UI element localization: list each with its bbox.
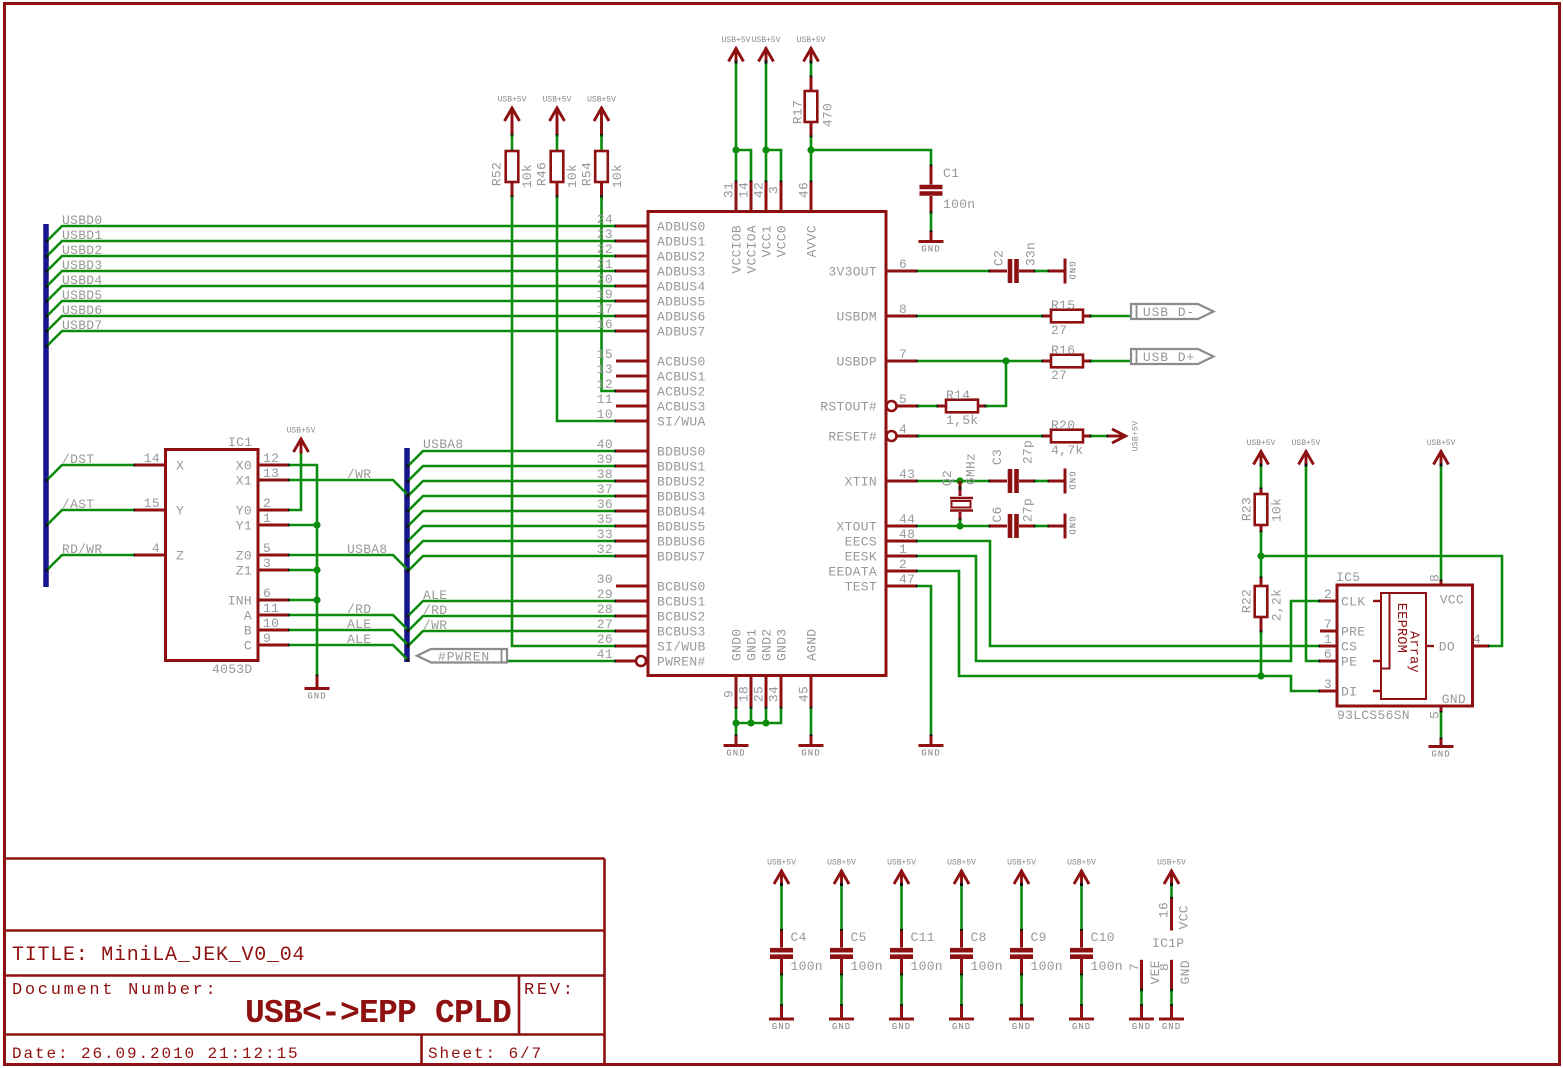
svg-text:VCC: VCC — [1440, 593, 1464, 608]
svg-text:4,7k: 4,7k — [1051, 443, 1083, 458]
svg-text:39: 39 — [597, 452, 613, 467]
svg-text:ACBUS1: ACBUS1 — [657, 370, 706, 385]
svg-text:USBA8: USBA8 — [423, 437, 464, 452]
svg-text:/DST: /DST — [62, 452, 94, 467]
svg-text:USB<->EPP CPLD: USB<->EPP CPLD — [245, 995, 511, 1032]
svg-text:4053D: 4053D — [212, 662, 253, 677]
svg-text:XTOUT: XTOUT — [836, 520, 877, 535]
svg-text:16: 16 — [1157, 902, 1172, 918]
svg-text:USB+5V: USB+5V — [887, 859, 916, 868]
svg-text:#PWREN: #PWREN — [438, 650, 490, 665]
svg-text:/AST: /AST — [62, 497, 94, 512]
svg-text:26: 26 — [597, 632, 613, 647]
svg-text:ALE: ALE — [347, 632, 371, 647]
svg-text:ADBUS1: ADBUS1 — [657, 235, 706, 250]
svg-text:USBD6: USBD6 — [62, 303, 103, 318]
svg-text:48: 48 — [899, 527, 915, 542]
svg-text:3V3OUT: 3V3OUT — [828, 265, 877, 280]
svg-text:27: 27 — [597, 617, 613, 632]
svg-text:USBD0: USBD0 — [62, 213, 103, 228]
svg-text:1: 1 — [899, 542, 907, 557]
svg-text:USB+5V: USB+5V — [1067, 859, 1096, 868]
svg-text:6: 6 — [263, 586, 271, 601]
svg-text:RSTOUT#: RSTOUT# — [820, 400, 877, 415]
svg-text:2: 2 — [899, 557, 907, 572]
svg-text:USB+5V: USB+5V — [947, 859, 976, 868]
svg-text:ACBUS3: ACBUS3 — [657, 400, 706, 415]
svg-text:4: 4 — [899, 422, 907, 437]
svg-text:5: 5 — [899, 392, 907, 407]
svg-text:GND: GND — [1067, 471, 1077, 490]
svg-text:14: 14 — [144, 451, 160, 466]
svg-text:33: 33 — [597, 527, 613, 542]
svg-text:RESET#: RESET# — [828, 430, 877, 445]
svg-text:10k: 10k — [565, 164, 580, 188]
svg-text:45: 45 — [797, 686, 812, 702]
svg-text:C10: C10 — [1091, 930, 1115, 945]
svg-text:/RD: /RD — [347, 602, 371, 617]
svg-text:TEST: TEST — [845, 580, 877, 595]
svg-text:100n: 100n — [971, 959, 1003, 974]
svg-text:REV:: REV: — [524, 981, 576, 1000]
svg-text:35: 35 — [597, 512, 613, 527]
svg-text:31: 31 — [722, 182, 737, 198]
svg-text:USB+5V: USB+5V — [1247, 439, 1276, 448]
svg-text:36: 36 — [597, 497, 613, 512]
svg-text:32: 32 — [597, 542, 613, 557]
svg-text:ADBUS5: ADBUS5 — [657, 295, 706, 310]
svg-text:100n: 100n — [1091, 959, 1123, 974]
svg-text:USB D+: USB D+ — [1143, 350, 1195, 365]
svg-text:6MHz: 6MHz — [964, 453, 979, 485]
svg-text:GND: GND — [921, 245, 940, 255]
svg-text:USBD4: USBD4 — [62, 273, 103, 288]
svg-text:USB+5V: USB+5V — [797, 36, 826, 45]
svg-text:R20: R20 — [1051, 418, 1075, 433]
svg-text:C1: C1 — [943, 166, 959, 181]
svg-text:GND: GND — [307, 692, 326, 702]
svg-text:VCCIOB: VCCIOB — [730, 225, 745, 274]
svg-text:19: 19 — [597, 287, 613, 302]
svg-text:CLK: CLK — [1341, 595, 1365, 610]
svg-text:8: 8 — [1428, 574, 1443, 582]
svg-text:/WR: /WR — [423, 618, 447, 633]
svg-text:100n: 100n — [851, 959, 883, 974]
svg-text:INH: INH — [228, 594, 252, 609]
svg-text:DO: DO — [1439, 640, 1455, 655]
svg-text:GND: GND — [1178, 960, 1193, 984]
svg-text:BCBUS2: BCBUS2 — [657, 610, 706, 625]
svg-text:37: 37 — [597, 482, 613, 497]
svg-text:2: 2 — [263, 496, 271, 511]
svg-text:C6: C6 — [990, 506, 1005, 522]
svg-text:ADBUS7: ADBUS7 — [657, 325, 706, 340]
svg-text:GND: GND — [1012, 1022, 1031, 1032]
svg-text:12: 12 — [597, 377, 613, 392]
svg-text:2: 2 — [1324, 587, 1332, 602]
svg-text:7: 7 — [1324, 617, 1332, 632]
svg-text:29: 29 — [597, 587, 613, 602]
svg-text:R16: R16 — [1051, 343, 1075, 358]
svg-text:BDBUS0: BDBUS0 — [657, 445, 706, 460]
svg-text:24: 24 — [597, 212, 613, 227]
svg-text:ADBUS2: ADBUS2 — [657, 250, 706, 265]
svg-text:DI: DI — [1341, 685, 1357, 700]
svg-text:GND: GND — [726, 749, 745, 759]
svg-text:17: 17 — [597, 302, 613, 317]
svg-text:10: 10 — [597, 407, 613, 422]
svg-text:20: 20 — [597, 272, 613, 287]
svg-text:Z1: Z1 — [236, 564, 252, 579]
svg-text:Y0: Y0 — [236, 504, 252, 519]
svg-text:4: 4 — [152, 541, 160, 556]
svg-text:21: 21 — [597, 257, 613, 272]
svg-text:8: 8 — [1157, 963, 1172, 971]
svg-text:8: 8 — [899, 302, 907, 317]
svg-text:USB+5V: USB+5V — [752, 36, 781, 45]
svg-text:BDBUS5: BDBUS5 — [657, 520, 706, 535]
svg-text:EESK: EESK — [845, 550, 877, 565]
svg-text:7: 7 — [899, 347, 907, 362]
svg-text:15: 15 — [597, 347, 613, 362]
svg-text:9: 9 — [722, 690, 737, 698]
svg-text:USB+5V: USB+5V — [722, 36, 751, 45]
svg-text:27: 27 — [1051, 323, 1067, 338]
svg-text:ADBUS3: ADBUS3 — [657, 265, 706, 280]
svg-text:GND: GND — [952, 1022, 971, 1032]
svg-text:USB+5V: USB+5V — [827, 859, 856, 868]
svg-text:100n: 100n — [911, 959, 943, 974]
svg-text:100n: 100n — [943, 197, 975, 212]
svg-text:USBD1: USBD1 — [62, 228, 103, 243]
svg-text:25: 25 — [752, 686, 767, 702]
svg-text:USBDP: USBDP — [836, 355, 877, 370]
svg-text:3: 3 — [767, 186, 782, 194]
svg-text:C5: C5 — [851, 930, 867, 945]
svg-text:33n: 33n — [1024, 242, 1039, 266]
svg-text:10k: 10k — [1270, 498, 1285, 522]
svg-text:USB+5V: USB+5V — [498, 96, 527, 105]
svg-text:USBD5: USBD5 — [62, 288, 103, 303]
svg-text:23: 23 — [597, 227, 613, 242]
svg-text:VCC1: VCC1 — [760, 225, 775, 257]
svg-text:7: 7 — [1127, 963, 1142, 971]
svg-text:R22: R22 — [1240, 589, 1255, 613]
svg-text:12: 12 — [263, 451, 279, 466]
svg-text:IC5: IC5 — [1336, 570, 1360, 585]
svg-text:11: 11 — [597, 392, 613, 407]
svg-text:EECS: EECS — [845, 535, 877, 550]
svg-text:GND: GND — [1162, 1022, 1181, 1032]
svg-text:USB+5V: USB+5V — [587, 96, 616, 105]
svg-text:AVVC: AVVC — [805, 225, 820, 257]
svg-text:2,2k: 2,2k — [1270, 589, 1285, 621]
svg-text:B: B — [244, 624, 252, 639]
svg-text:C11: C11 — [911, 930, 935, 945]
svg-text:GND: GND — [892, 1022, 911, 1032]
svg-text:ALE: ALE — [347, 617, 371, 632]
svg-text:ADBUS4: ADBUS4 — [657, 280, 706, 295]
svg-text:27p: 27p — [1021, 498, 1036, 522]
svg-text:3: 3 — [263, 556, 271, 571]
svg-text:USB+5V: USB+5V — [767, 859, 796, 868]
svg-text:Document Number:: Document Number: — [12, 981, 218, 1000]
svg-text:PWREN#: PWREN# — [657, 655, 706, 670]
svg-text:C3: C3 — [990, 449, 1005, 465]
svg-text:GND: GND — [832, 1022, 851, 1032]
svg-text:AGND: AGND — [805, 629, 820, 661]
svg-text:6: 6 — [1324, 647, 1332, 662]
svg-text:3: 3 — [1324, 677, 1332, 692]
svg-text:PRE: PRE — [1341, 625, 1365, 640]
svg-text:USB+5V: USB+5V — [1132, 421, 1141, 452]
svg-text:X0: X0 — [236, 459, 252, 474]
svg-text:GND: GND — [1431, 750, 1450, 760]
svg-text:SI/WUB: SI/WUB — [657, 640, 706, 655]
svg-text:RD/WR: RD/WR — [62, 542, 103, 557]
svg-text:/RD: /RD — [423, 603, 447, 618]
svg-text:R14: R14 — [946, 388, 970, 403]
svg-text:47: 47 — [899, 572, 915, 587]
svg-text:22: 22 — [597, 242, 613, 257]
svg-text:GND: GND — [1072, 1022, 1091, 1032]
svg-text:GND: GND — [1132, 1022, 1151, 1032]
svg-text:16: 16 — [597, 317, 613, 332]
svg-text:R54: R54 — [580, 162, 595, 186]
svg-text:Q2: Q2 — [940, 470, 955, 486]
svg-text:Sheet: 6/7: Sheet: 6/7 — [428, 1045, 543, 1063]
svg-text:13: 13 — [597, 362, 613, 377]
svg-text:BCBUS1: BCBUS1 — [657, 595, 706, 610]
svg-text:USBA8: USBA8 — [347, 542, 388, 557]
svg-text:Array: Array — [1405, 631, 1420, 673]
svg-text:GND: GND — [1067, 516, 1077, 535]
svg-text:BDBUS6: BDBUS6 — [657, 535, 706, 550]
svg-text:BCBUS0: BCBUS0 — [657, 580, 706, 595]
svg-text:USBD2: USBD2 — [62, 243, 103, 258]
svg-text:TITLE: MiniLA_JEK_V0_04: TITLE: MiniLA_JEK_V0_04 — [12, 944, 305, 967]
svg-text:USB+5V: USB+5V — [1292, 439, 1321, 448]
svg-text:USB+5V: USB+5V — [287, 427, 316, 436]
svg-text:/WR: /WR — [347, 467, 371, 482]
svg-text:USB+5V: USB+5V — [1007, 859, 1036, 868]
svg-text:100n: 100n — [1031, 959, 1063, 974]
svg-text:10k: 10k — [610, 164, 625, 188]
svg-text:VCCIOA: VCCIOA — [745, 225, 760, 274]
svg-text:GND: GND — [921, 749, 940, 759]
svg-text:13: 13 — [263, 466, 279, 481]
svg-text:SI/WUA: SI/WUA — [657, 415, 706, 430]
svg-text:GND1: GND1 — [745, 629, 760, 661]
svg-text:C9: C9 — [1031, 930, 1047, 945]
svg-text:10k: 10k — [520, 164, 535, 188]
svg-text:C4: C4 — [791, 930, 807, 945]
svg-text:IC1P: IC1P — [1152, 936, 1184, 951]
svg-text:42: 42 — [752, 182, 767, 198]
svg-text:40: 40 — [597, 437, 613, 452]
svg-text:ACBUS2: ACBUS2 — [657, 385, 706, 400]
svg-text:100n: 100n — [791, 959, 823, 974]
svg-text:34: 34 — [767, 686, 782, 702]
svg-text:USB+5V: USB+5V — [1427, 439, 1456, 448]
svg-text:BDBUS1: BDBUS1 — [657, 460, 706, 475]
svg-text:EEDATA: EEDATA — [828, 565, 877, 580]
svg-text:5: 5 — [1428, 711, 1443, 719]
svg-text:28: 28 — [597, 602, 613, 617]
svg-text:R15: R15 — [1051, 298, 1075, 313]
svg-text:Y: Y — [176, 504, 184, 519]
svg-text:15: 15 — [144, 496, 160, 511]
svg-text:X: X — [176, 459, 184, 474]
svg-text:Z: Z — [176, 549, 184, 564]
svg-text:44: 44 — [899, 512, 915, 527]
svg-text:10: 10 — [263, 616, 279, 631]
svg-text:38: 38 — [597, 467, 613, 482]
svg-text:X1: X1 — [236, 474, 252, 489]
svg-text:VCC0: VCC0 — [775, 225, 790, 257]
svg-text:GND: GND — [1067, 261, 1077, 280]
svg-text:93LCS56SN: 93LCS56SN — [1337, 708, 1410, 723]
svg-text:BDBUS4: BDBUS4 — [657, 505, 706, 520]
svg-text:9: 9 — [263, 631, 271, 646]
svg-text:1: 1 — [263, 511, 271, 526]
svg-text:46: 46 — [797, 182, 812, 198]
svg-text:USB+5V: USB+5V — [1157, 859, 1186, 868]
svg-text:USB D-: USB D- — [1143, 305, 1195, 320]
svg-text:R46: R46 — [535, 162, 550, 186]
svg-text:XTIN: XTIN — [845, 475, 877, 490]
svg-text:41: 41 — [597, 647, 613, 662]
svg-text:4: 4 — [1473, 632, 1481, 647]
svg-text:43: 43 — [899, 467, 915, 482]
svg-text:ACBUS0: ACBUS0 — [657, 355, 706, 370]
svg-text:30: 30 — [597, 572, 613, 587]
svg-text:USBDM: USBDM — [836, 310, 877, 325]
svg-text:6: 6 — [899, 257, 907, 272]
svg-text:VCC: VCC — [1177, 905, 1192, 929]
svg-text:USB+5V: USB+5V — [543, 96, 572, 105]
svg-text:GND: GND — [1442, 692, 1466, 707]
svg-text:A: A — [244, 609, 252, 624]
svg-text:R23: R23 — [1240, 497, 1255, 521]
svg-text:11: 11 — [263, 601, 279, 616]
svg-text:C: C — [244, 639, 252, 654]
svg-text:GND: GND — [801, 749, 820, 759]
svg-text:GND3: GND3 — [775, 629, 790, 661]
svg-text:IC1: IC1 — [228, 435, 252, 450]
svg-text:27p: 27p — [1021, 440, 1036, 464]
svg-text:R52: R52 — [490, 162, 505, 186]
svg-text:ALE: ALE — [423, 588, 447, 603]
svg-text:470: 470 — [821, 103, 836, 127]
svg-text:R17: R17 — [791, 100, 806, 124]
svg-text:USBD7: USBD7 — [62, 318, 103, 333]
svg-text:14: 14 — [737, 182, 752, 198]
svg-text:GND2: GND2 — [760, 629, 775, 661]
svg-text:Date: 26.09.2010 21:12:15: Date: 26.09.2010 21:12:15 — [12, 1045, 300, 1063]
svg-text:BDBUS3: BDBUS3 — [657, 490, 706, 505]
svg-text:USBD3: USBD3 — [62, 258, 103, 273]
svg-text:PE: PE — [1341, 655, 1357, 670]
svg-text:GND: GND — [772, 1022, 791, 1032]
svg-text:CS: CS — [1341, 640, 1357, 655]
svg-text:18: 18 — [737, 686, 752, 702]
svg-text:BCBUS3: BCBUS3 — [657, 625, 706, 640]
svg-text:BDBUS2: BDBUS2 — [657, 475, 706, 490]
svg-text:C2: C2 — [992, 250, 1007, 266]
svg-text:1,5k: 1,5k — [946, 413, 978, 428]
svg-text:C8: C8 — [971, 930, 987, 945]
svg-text:1: 1 — [1324, 632, 1332, 647]
svg-text:GND0: GND0 — [730, 629, 745, 661]
svg-text:BDBUS7: BDBUS7 — [657, 550, 706, 565]
svg-text:Z0: Z0 — [236, 549, 252, 564]
svg-text:27: 27 — [1051, 368, 1067, 383]
svg-text:Y1: Y1 — [236, 519, 252, 534]
svg-text:5: 5 — [263, 541, 271, 556]
svg-text:ADBUS6: ADBUS6 — [657, 310, 706, 325]
svg-text:ADBUS0: ADBUS0 — [657, 220, 706, 235]
